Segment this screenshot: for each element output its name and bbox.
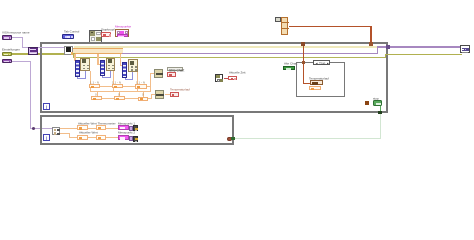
wire row2 A2-B2 <box>88 137 96 138</box>
junction dot green on border <box>231 137 234 140</box>
wait ms square <box>365 101 369 105</box>
indicator B2 (orange) <box>96 135 106 140</box>
terminal Strip Chart (red) <box>167 72 175 77</box>
orange wires row1 interlinks <box>100 86 112 87</box>
string M1 (magenta) <box>118 125 129 131</box>
label VISA resource name <box>2 31 30 34</box>
label 0 col1 <box>95 93 97 96</box>
label Aktueller Wert Thermometer <box>78 122 116 125</box>
constant row2 col1 <box>91 96 102 100</box>
wire blue hook G1 <box>77 77 78 79</box>
aktuelle zeit icon <box>215 74 223 82</box>
group G1 property node (yellow) <box>80 58 90 71</box>
label Tab Control <box>64 30 79 33</box>
label Messpunkte <box>115 25 131 28</box>
case structure <box>296 62 345 97</box>
label 0 col2 <box>118 93 120 96</box>
faint yellow wire across loop <box>74 46 378 48</box>
tunnel rust on top border (right) <box>369 42 373 46</box>
orange cluster bus band <box>73 48 123 54</box>
continue terminal (green) <box>373 97 379 100</box>
orange drop G3 <box>120 54 121 66</box>
tunnel rust on top border <box>301 42 305 46</box>
label Strip Chart <box>167 67 183 71</box>
group G1 blue stack <box>75 60 80 77</box>
terminal cluster (purple) lower <box>2 59 12 63</box>
rust wire into case <box>303 44 304 84</box>
label Aktueller Wert <box>79 131 98 134</box>
wire W1 VISA resource <box>12 37 23 38</box>
constant in case (orange) <box>309 86 321 90</box>
wire to aktuelle zeit terminal <box>224 78 229 79</box>
terminal Tab Control <box>62 34 74 39</box>
wire W3 purple to bottom loop <box>12 61 30 62</box>
terminal Einstellungen <box>2 52 12 56</box>
stop condition terminal (bottom loop) <box>227 137 232 142</box>
terminal Alte Chart (green) <box>283 66 295 70</box>
while loop (bottom) <box>40 115 234 145</box>
wire W2 error (olive) left segment <box>12 53 74 54</box>
purple wire inside loop <box>122 53 378 54</box>
label 1.1-N col3 <box>136 81 145 84</box>
label Messpunkt 2 <box>118 131 135 134</box>
indicator in case (dark) <box>310 80 323 85</box>
wire blue hook G2 <box>102 76 103 78</box>
tunnel rust on case top border <box>302 61 306 64</box>
group G2 property node (yellow) <box>106 58 115 71</box>
label Alte Chart <box>284 62 297 65</box>
orange drop G1 <box>74 54 75 61</box>
wire blue hook G3 <box>125 78 126 80</box>
indicator A2 (orange) <box>77 135 87 140</box>
wire row1 B1-M1 <box>106 128 118 129</box>
VISA close icon <box>460 45 470 53</box>
label Einstellungen <box>2 48 20 51</box>
label 1.1-N col1 <box>90 81 99 84</box>
wire orange to TL terminal <box>165 94 170 95</box>
terminal Messpunkte cluster <box>115 29 130 37</box>
terminal Temperaturlauf (red) <box>170 92 179 97</box>
strip chart convert icon <box>154 69 163 78</box>
terminal Aktuelle Zeit (red) <box>228 76 237 81</box>
wire row2 B2-M2 <box>106 137 118 138</box>
indicator B1 (orange) <box>96 125 106 130</box>
get date/time icon (top right) <box>275 17 281 22</box>
lavender L2 <box>129 136 133 141</box>
label 1.1-N col2 <box>112 81 121 84</box>
label Messpunkt 1 <box>118 122 135 125</box>
unbundle node (big loop) <box>64 46 73 55</box>
wire row1 A1-B1 <box>88 128 96 129</box>
constant row2 col2 <box>114 96 125 100</box>
constant row1 col3 <box>135 84 146 88</box>
constant row2 col3 <box>138 97 149 101</box>
string M2 (magenta) <box>118 135 129 141</box>
orange riser to strip chart <box>150 73 151 92</box>
VISA open node <box>28 47 38 55</box>
label Temperaturlauf <box>170 88 190 91</box>
group G3 blue stack <box>122 62 127 78</box>
label Temperaturlauf (case) <box>309 77 329 80</box>
lavender L1 <box>129 126 133 131</box>
tunnel purple on right border <box>386 45 390 49</box>
bundle node (top right) <box>281 17 287 35</box>
orange drop G2 <box>97 54 98 65</box>
label Aktuelle Zeit <box>229 71 246 74</box>
wire orange row2 (bottom loop) <box>60 133 70 134</box>
icon I1 (dark subVI) <box>133 125 139 131</box>
group G2 blue stack <box>100 60 105 76</box>
tunnel green bottom border <box>378 111 382 114</box>
constant row1 col2 <box>112 84 123 88</box>
iteration terminal i (bottom loop) <box>43 134 50 141</box>
icon I2 (dark subVI) <box>133 136 139 142</box>
temperaturlauf convert icon <box>155 90 164 99</box>
label Stopknopf <box>101 28 115 31</box>
wire orange row1 (bottom loop) <box>60 128 77 129</box>
unbundle node (bottom loop) <box>52 127 60 136</box>
indicator A1 (orange) <box>77 125 87 130</box>
wire purple VISA open to unbundle <box>38 47 65 48</box>
group G3 property node (yellow) <box>128 59 137 72</box>
junction dot purple <box>32 127 35 130</box>
orange stubs yellow nodes to row1 constants <box>90 71 91 85</box>
olive error wire inside loop <box>73 53 74 57</box>
wire rust from bundle <box>289 26 372 27</box>
case selector label <box>313 60 330 65</box>
wire faint green to bottom loop <box>380 114 381 139</box>
terminal Stopknopf (red) <box>101 32 111 37</box>
label 0 col3 <box>142 93 144 96</box>
while loop (big) <box>40 42 388 113</box>
constant row1 col1 <box>89 84 100 88</box>
iteration terminal i (big loop) <box>43 103 50 110</box>
orange wires row2 interlinks <box>102 98 114 99</box>
orange net row1-row2 <box>90 88 91 91</box>
sub-VI icon (top) <box>89 30 102 43</box>
terminal VISA resource name <box>2 35 12 39</box>
wire green condition down <box>380 106 381 111</box>
